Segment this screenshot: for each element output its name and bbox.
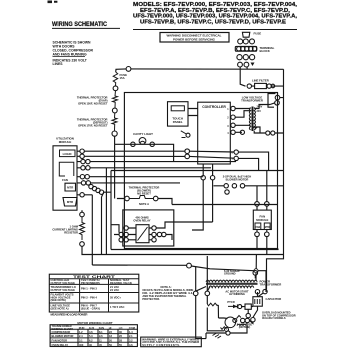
svg-text:1.4: 1.4 — [129, 330, 133, 334]
fan module — [253, 171, 271, 255]
svg-text:9.6: 9.6 — [99, 334, 103, 338]
thermal protector 1 symbol — [113, 91, 118, 108]
svg-text:TRANSFORMER: TRANSFORMER — [241, 99, 263, 103]
svg-text:HV WINDING: HV WINDING — [229, 292, 245, 296]
svg-text:PTCR: PTCR — [227, 300, 234, 304]
svg-text:COMPRESSOR: COMPRESSOR — [52, 330, 71, 334]
module pin terminals column — [80, 149, 104, 197]
svg-text:4.6: 4.6 — [89, 330, 93, 334]
svg-text:GROUND: GROUND — [224, 272, 236, 276]
svg-text:3.1: 3.1 — [79, 339, 83, 343]
inner frame — [124, 93, 277, 249]
svg-text:FAN: FAN — [256, 226, 261, 229]
touch panel U2 — [168, 102, 189, 126]
svg-text:OPEN 170F, NO RESET: OPEN 170F, NO RESET — [78, 124, 108, 128]
warning box bottom — [141, 337, 202, 347]
svg-text:FAN: FAN — [62, 178, 68, 182]
ground hatch — [213, 333, 222, 338]
svg-text:MODULE: MODULE — [256, 218, 268, 222]
svg-text:AUX: AUX — [89, 326, 95, 330]
svg-text:400: 400 — [79, 343, 84, 347]
svg-text:NO RESET: NO RESET — [137, 192, 151, 196]
PTCR — [227, 300, 251, 318]
svg-text:POWER BEFORE SERVICING: POWER BEFORE SERVICING — [173, 38, 216, 42]
svg-text:24 VAC: 24 VAC — [110, 288, 119, 292]
wire: terminal block to line filter — [240, 67, 245, 86]
wires touch panel to controller — [188, 109, 198, 116]
svg-text:PROTECTOR.: PROTECTOR. — [142, 297, 160, 301]
mid bus row 204.5 — [172, 204, 278, 206]
svg-text:READING VALUE: READING VALUE — [110, 281, 132, 285]
svg-text:MTR: MTR — [67, 185, 73, 189]
controller U1 — [198, 102, 231, 164]
svg-text:BLOWER MOTOR: BLOWER MOTOR — [52, 334, 74, 338]
svg-text:PANEL: PANEL — [173, 120, 183, 124]
svg-text:OVEN RELAY: OVEN RELAY — [52, 343, 69, 347]
svg-text:TRANSFORMER: TRANSFORMER — [260, 283, 282, 287]
wires down to compressor circuit — [196, 255, 257, 292]
svg-text:LINES: LINES — [53, 62, 64, 66]
wire motor bottom to left — [206, 323, 247, 339]
models list header — [133, 2, 297, 25]
terminal — [112, 108, 117, 113]
svg-text:LO: LO — [119, 326, 123, 330]
bottom bus wires — [111, 249, 278, 250]
svg-text:FAN MOTOR: FAN MOTOR — [52, 339, 68, 343]
svg-text:NOTE A: NOTE A — [139, 202, 149, 206]
ground run wire — [191, 266, 266, 292]
svg-text:OVEN RELAY: OVEN RELAY — [133, 218, 150, 222]
svg-text:UFS-7EVP.B, UFS-7EVP.C, UFS-7E: UFS-7EVP.B, UFS-7EVP.C, UFS-7EVP.D, UFS-… — [140, 19, 286, 25]
fuse holder on terminal block — [242, 32, 261, 38]
svg-text:BLOWER MOTOR: BLOWER MOTOR — [226, 177, 249, 181]
long bus row — [111, 170, 284, 172]
wire: top-left drop — [116, 69, 126, 72]
controller right pins — [231, 106, 235, 110]
power transformer T2 — [196, 275, 282, 298]
svg-text:RUN: RUN — [79, 326, 85, 330]
pin numbers — [227, 108, 233, 161]
compressor loop wires — [196, 296, 224, 339]
terminal open — [112, 131, 117, 136]
svg-text:BLOCK: BLOCK — [260, 49, 271, 53]
warning box: disconnect power — [160, 33, 229, 43]
utilization module M1 — [53, 137, 77, 211]
svg-text:AND FANS RUNNING: AND FANS RUNNING — [53, 53, 87, 57]
thermal protector 2 symbol — [112, 113, 117, 131]
svg-text:1 TO 5 VAC: 1 TO 5 VAC — [110, 305, 124, 309]
svg-text:CONTROLLER: CONTROLLER — [202, 105, 226, 109]
right main bus wire — [283, 69, 285, 254]
svg-text:LINE FILTER: LINE FILTER — [252, 79, 269, 83]
terminal block — [235, 39, 274, 67]
svg-text:6.2: 6.2 — [89, 339, 93, 343]
svg-text:CAVITY LIGHT: CAVITY LIGHT — [133, 132, 153, 136]
svg-text:CAPACITOR: CAPACITOR — [266, 297, 282, 301]
terminals on 133 wire — [240, 130, 244, 134]
svg-text:MTR: MTR — [67, 200, 74, 204]
table 1 test chart — [49, 274, 139, 317]
crossover ticks — [252, 127, 258, 130]
svg-text:RESISTOR: RESISTOR — [64, 231, 78, 235]
ground terminal — [187, 263, 192, 268]
oven relay K1 — [111, 215, 213, 242]
main top bus wire — [131, 68, 284, 70]
overload note text — [262, 311, 296, 321]
svg-text:IN EARLY MODELS: IN EARLY MODELS — [262, 316, 286, 320]
svg-text:OPEN 150F, NO RESET: OPEN 150F, NO RESET — [78, 102, 108, 106]
svg-text:PIN 1 - PIN 3: PIN 1 - PIN 3 — [81, 287, 97, 291]
svg-text:15A: 15A — [120, 76, 125, 80]
svg-text:5.3: 5.3 — [89, 334, 93, 338]
svg-text:WIRING SCHEMATIC: WIRING SCHEMATIC — [52, 22, 108, 28]
table 2 motor winding chart — [50, 321, 137, 347]
cavity light row — [115, 132, 174, 161]
svg-text:24V: 24V — [257, 110, 262, 113]
svg-text:(SEE NOTE): (SEE NOTE) — [51, 298, 66, 302]
svg-text:FUSE: FUSE — [254, 32, 262, 36]
thermal protector mid — [115, 144, 172, 206]
svg-text:4.6: 4.6 — [129, 343, 133, 347]
svg-text:PIN NUMBERS: PIN NUMBERS — [81, 281, 100, 285]
svg-text:3.2: 3.2 — [129, 339, 133, 343]
svg-text:MTR: MTR — [265, 227, 270, 229]
module row wires — [84, 151, 268, 170]
pin wires to transformer — [235, 109, 250, 133]
svg-text:(BLUE - GRAY): (BLUE - GRAY) — [81, 306, 100, 310]
bus corner to transformer right — [267, 255, 284, 290]
wire down to cavity light row — [114, 136, 116, 144]
blower motor row — [192, 164, 284, 230]
svg-text:55 VDC+: 55 VDC+ — [110, 296, 121, 300]
svg-text:SUPPLY COMPONENTS.: SUPPLY COMPONENTS. — [142, 344, 180, 347]
door switch — [181, 131, 190, 138]
relay sub-panel box — [123, 210, 174, 246]
scan artifact marks top-left — [48, 1, 58, 4]
svg-text:MEASURED NO LOAD POWER: MEASURED NO LOAD POWER — [51, 313, 89, 317]
svg-text:MODULE: MODULE — [59, 140, 72, 144]
svg-text:OUTPUT VOLTAGE: OUTPUT VOLTAGE — [51, 288, 76, 292]
svg-text:HI: HI — [109, 326, 112, 330]
module pin stubs — [77, 151, 81, 195]
row pin pair — [185, 149, 190, 154]
xfmr pins up to frame pins — [270, 93, 284, 105]
note schematic-state text block — [53, 41, 94, 67]
svg-text:8.1: 8.1 — [99, 330, 103, 334]
transformer secondary wires — [254, 105, 283, 134]
svg-text:(SEE NOTE A): (SEE NOTE A) — [51, 306, 69, 310]
terminals right of motor — [241, 318, 245, 322]
svg-text:1.2: 1.2 — [79, 330, 83, 334]
wire: terminal block to main line — [246, 67, 248, 70]
svg-text:(NOTE B): (NOTE B) — [239, 325, 251, 329]
fuse 15A symbol — [113, 72, 118, 86]
terminal — [263, 289, 267, 293]
terminal — [126, 67, 131, 72]
note A text block — [142, 285, 193, 301]
junction — [254, 269, 258, 273]
pin bracket — [268, 94, 276, 108]
svg-text:FAN: FAN — [99, 326, 104, 330]
left drop verticals — [92, 168, 111, 265]
resistor R1 1 ohm — [52, 210, 101, 254]
low voltage transformer T1 — [241, 96, 263, 132]
svg-text:2.1: 2.1 — [129, 334, 133, 338]
models underline — [133, 29, 297, 31]
svg-text:2.4: 2.4 — [79, 334, 83, 338]
overload OL1 — [207, 303, 218, 306]
line filter — [247, 79, 283, 89]
svg-text:PIN 2 - PIN 4: PIN 2 - PIN 4 — [81, 296, 97, 300]
svg-text:OUTPUT VOLTAGE: OUTPUT VOLTAGE — [51, 281, 76, 285]
svg-text:LOGIC: LOGIC — [63, 152, 73, 156]
compressor motor — [219, 316, 247, 336]
capacitor C1 — [250, 290, 282, 324]
low voltage xfmr pins on frame edge — [275, 95, 280, 100]
title WIRING SCHEMATIC — [52, 22, 120, 28]
svg-text:COM: COM — [129, 326, 135, 330]
terminal — [113, 86, 118, 91]
